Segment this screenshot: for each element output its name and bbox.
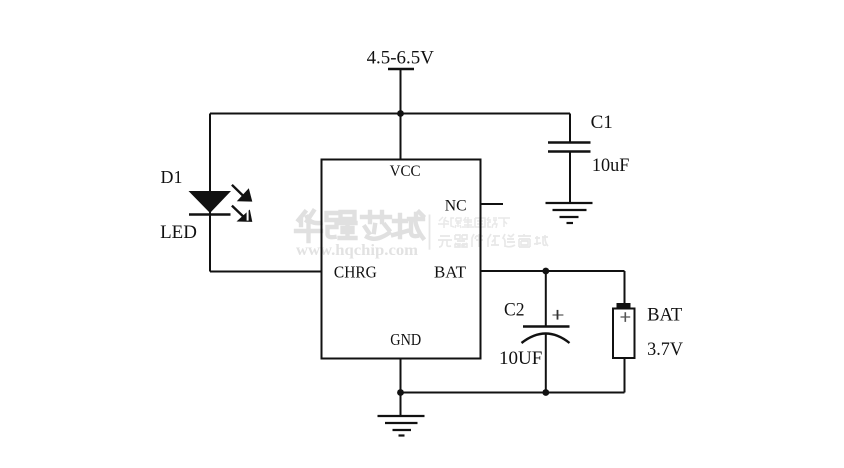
svg-text:VCC: VCC bbox=[390, 163, 421, 180]
svg-text:10uF: 10uF bbox=[592, 155, 630, 176]
svg-text:C2: C2 bbox=[504, 300, 525, 321]
svg-text:BAT: BAT bbox=[647, 305, 683, 326]
svg-text:LED: LED bbox=[160, 223, 197, 243]
svg-text:10UF: 10UF bbox=[499, 348, 542, 369]
svg-text:GND: GND bbox=[390, 330, 421, 349]
svg-text:www.hqchip.com: www.hqchip.com bbox=[296, 242, 418, 259]
svg-text:CHRG: CHRG bbox=[334, 263, 377, 282]
svg-text:D1: D1 bbox=[161, 167, 183, 187]
svg-text:C1: C1 bbox=[591, 112, 613, 133]
svg-text:4.5-6.5V: 4.5-6.5V bbox=[367, 47, 435, 68]
svg-text:3.7V: 3.7V bbox=[647, 339, 683, 360]
svg-text:NC: NC bbox=[445, 198, 467, 215]
svg-text:BAT: BAT bbox=[434, 263, 467, 282]
